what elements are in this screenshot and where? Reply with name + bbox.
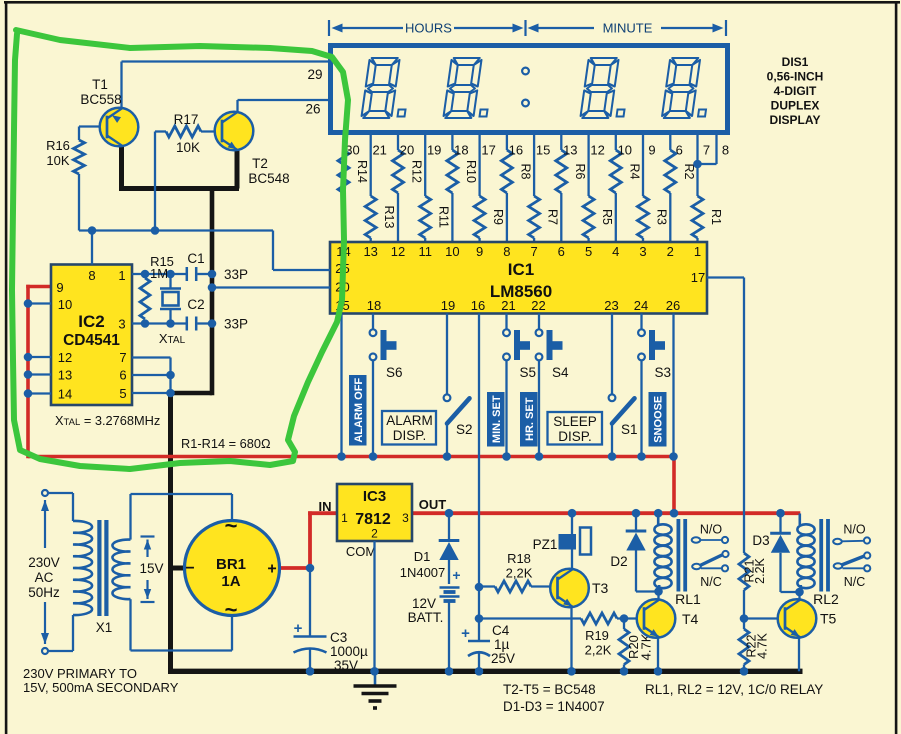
svg-text:20: 20 [400, 143, 414, 158]
wire IC1 pin17 to R21 [707, 278, 744, 554]
capacitor C2 33P [187, 297, 248, 332]
resistor R17 [155, 112, 223, 231]
annotation relay types [645, 682, 823, 697]
wire alarm line pin16 to bases [479, 617, 581, 619]
switch S2 [443, 314, 473, 461]
svg-text:14: 14 [58, 387, 72, 402]
svg-text:R7: R7 [546, 209, 560, 225]
transistor T5 [778, 599, 837, 638]
svg-text:+: + [461, 625, 470, 642]
svg-text:R13: R13 [382, 206, 396, 229]
svg-text:50Hz: 50Hz [28, 585, 60, 600]
svg-text:N/O: N/O [700, 523, 723, 537]
annotation 230V AC mains arrows [28, 500, 60, 644]
svg-text:C1: C1 [187, 251, 204, 266]
svg-text:T4: T4 [682, 611, 699, 627]
svg-text:S6: S6 [386, 365, 403, 380]
relay RL1 contacts [692, 523, 729, 590]
battery 12V [408, 560, 461, 676]
svg-text:BR1: BR1 [216, 556, 246, 573]
svg-text:−: − [185, 560, 194, 577]
svg-text:COM: COM [346, 544, 376, 559]
switch S6 [369, 314, 403, 461]
svg-text:T2: T2 [252, 156, 268, 171]
svg-text:D1: D1 [414, 549, 431, 564]
svg-text:SLEEP: SLEEP [553, 414, 597, 429]
wire display pin 8 to R1 column [693, 135, 729, 168]
green highlight loop [12, 30, 348, 469]
wire T3 emitter to ground [567, 607, 576, 676]
svg-text:10: 10 [618, 143, 632, 158]
svg-text:MIN. SET: MIN. SET [491, 395, 503, 443]
svg-text:S1: S1 [621, 422, 638, 437]
svg-text:9: 9 [56, 280, 63, 295]
svg-text:12V: 12V [412, 596, 436, 611]
svg-text:9: 9 [476, 244, 483, 259]
label ALARM DISP box [382, 411, 436, 445]
svg-text:C2: C2 [187, 297, 204, 312]
svg-text:R14: R14 [355, 160, 369, 183]
svg-text:6: 6 [676, 143, 683, 158]
svg-text:3: 3 [639, 244, 646, 259]
svg-text:12: 12 [590, 143, 604, 158]
wire V+ junction dot [670, 509, 679, 518]
svg-text:R8: R8 [518, 164, 532, 180]
svg-text:R16: R16 [46, 138, 70, 153]
resistor R19 2.2K [581, 613, 645, 658]
resistor R16 [46, 127, 106, 231]
svg-text:R1-R14 = 680Ω: R1-R14 = 680Ω [181, 436, 271, 451]
crystal XTAL [159, 274, 186, 346]
annotation 15V secondary arrows [139, 537, 163, 603]
capacitor C3 1000u [294, 564, 369, 676]
resistor R9 with display pin 17 [474, 135, 505, 243]
svg-text:15: 15 [536, 143, 550, 158]
svg-text:13: 13 [563, 143, 577, 158]
svg-text:IN: IN [319, 499, 332, 514]
svg-text:10: 10 [445, 244, 459, 259]
svg-text:7: 7 [119, 350, 126, 365]
svg-text:DUPLEX: DUPLEX [771, 99, 820, 113]
transformer X1 secondary winding [112, 494, 232, 651]
annotation transistor types [503, 682, 605, 714]
label X1 [96, 620, 113, 635]
svg-text:DISPLAY: DISPLAY [770, 113, 821, 127]
wire V+ net (red bus) [26, 285, 800, 570]
diode D2 [610, 509, 658, 592]
wire ground net (T1/T2 to IC2 pin5 to bus) [119, 146, 803, 674]
diode D3 [752, 509, 799, 592]
svg-text:5: 5 [119, 386, 126, 401]
wire IC3 pin2 to ground [370, 541, 379, 676]
wire IC2 pin8 to bias node [88, 226, 160, 264]
wire IC1 pin16 alarm output column [475, 314, 484, 676]
label HR. SET [520, 392, 538, 447]
svg-text:25V: 25V [491, 651, 515, 666]
svg-text:18: 18 [367, 298, 381, 313]
resistor R8 with display pin 16 [501, 135, 532, 243]
resistor R6 with display pin 13 [556, 135, 587, 243]
svg-text:17: 17 [481, 143, 495, 158]
wire IC2 pins 7,6,5 [132, 358, 175, 398]
wire IC1 pin26 column [669, 314, 678, 461]
svg-text:IC3: IC3 [363, 488, 386, 505]
svg-text:T3: T3 [592, 580, 609, 596]
svg-text:10: 10 [58, 297, 72, 312]
wire IC1 pin15 column [337, 314, 346, 461]
svg-text:BC558: BC558 [80, 92, 121, 107]
svg-text:26: 26 [666, 298, 680, 313]
svg-text:7: 7 [703, 143, 710, 158]
svg-text:1µ: 1µ [494, 637, 510, 652]
svg-text:230V PRIMARY TO: 230V PRIMARY TO [23, 666, 137, 681]
svg-text:R3: R3 [655, 209, 669, 225]
diode D1 1N4007 [400, 509, 460, 580]
svg-text:S2: S2 [456, 422, 473, 437]
IC1 right pin number 17 [691, 270, 705, 285]
svg-text:N/O: N/O [843, 523, 866, 537]
svg-text:~: ~ [225, 597, 238, 622]
svg-text:8: 8 [503, 244, 510, 259]
IC1 top pin numbers [336, 244, 701, 259]
svg-text:23: 23 [604, 298, 618, 313]
svg-text:PZ1: PZ1 [533, 537, 558, 552]
transformer X1 primary terminals [42, 490, 48, 654]
svg-text:R1: R1 [709, 209, 723, 225]
resistor R12 with display pin 20 [393, 135, 424, 243]
wire IC2 pin1 row [132, 270, 216, 279]
wire R21 junction to T5 base [744, 617, 786, 619]
label ALARM OFF [349, 375, 367, 446]
red feed to relays [0, 0, 1, 1]
svg-text:R10: R10 [464, 160, 478, 183]
svg-text:7812: 7812 [355, 511, 391, 528]
relay RL2 contacts [833, 523, 870, 590]
svg-text:DIS1: DIS1 [782, 55, 809, 69]
svg-text:15V: 15V [139, 561, 163, 576]
svg-text:~: ~ [225, 513, 238, 538]
svg-text:R9: R9 [491, 209, 505, 225]
svg-text:1: 1 [118, 268, 125, 283]
svg-text:35V: 35V [334, 658, 358, 673]
label SNOOSE [649, 392, 667, 447]
svg-text:19: 19 [427, 143, 441, 158]
svg-text:D1-D3 = 1N4007: D1-D3 = 1N4007 [503, 699, 605, 714]
transistor T3 [550, 569, 608, 608]
svg-text:6: 6 [119, 368, 126, 383]
svg-text:3: 3 [118, 317, 125, 332]
svg-text:9: 9 [648, 143, 655, 158]
svg-text:13: 13 [58, 368, 72, 383]
svg-text:AC: AC [35, 570, 54, 585]
svg-text:C4: C4 [492, 623, 510, 638]
svg-text:S4: S4 [552, 365, 569, 380]
svg-text:1: 1 [341, 511, 348, 525]
svg-text:IC2: IC2 [78, 312, 104, 331]
IC2 CD4541 body [51, 265, 132, 406]
svg-text:12: 12 [58, 350, 72, 365]
svg-text:2,2K: 2,2K [506, 566, 533, 581]
wire IC2 left pins to V+ rail [24, 299, 51, 398]
svg-text:DISP.: DISP. [393, 428, 427, 443]
resistor R11 with display pin 19 [420, 135, 451, 243]
svg-text:SNOOSE: SNOOSE [653, 396, 665, 443]
resistor R2 with display pin 6 [665, 135, 696, 243]
transformer X1 core [97, 520, 108, 616]
IC3 7812 regulator [319, 484, 447, 559]
svg-text:2,2K: 2,2K [585, 643, 612, 658]
svg-text:R4: R4 [627, 164, 641, 180]
ground symbol [354, 673, 397, 708]
svg-text:S5: S5 [520, 365, 537, 380]
wire display pin 29 from T1 [122, 62, 330, 109]
label 230V primary annotation [23, 666, 179, 695]
resistor R13 with display pin 21 [365, 135, 396, 243]
7-segment digit 4 [662, 58, 713, 118]
resistor R22 4.7K [739, 619, 770, 676]
resistor R14 with display pin 30 [338, 135, 369, 243]
svg-text:T2-T5 = BC548: T2-T5 = BC548 [503, 682, 596, 697]
svg-text:22: 22 [531, 298, 545, 313]
IC1 left pin numbers [335, 261, 349, 313]
svg-text:13: 13 [363, 244, 377, 259]
transistor T2 BC548 [215, 112, 290, 186]
svg-text:2: 2 [371, 527, 378, 541]
display DIS1 outline [331, 46, 728, 133]
svg-text:R19: R19 [585, 628, 609, 643]
7-segment digit 3 [580, 58, 631, 118]
colon [522, 68, 529, 107]
svg-text:RL1: RL1 [675, 591, 701, 607]
svg-text:BATT.: BATT. [408, 610, 444, 625]
svg-text:C3: C3 [330, 630, 347, 645]
capacitor C1 33P [187, 251, 248, 282]
wire IC1 pin25 to bias node [79, 231, 330, 271]
svg-text:RL1, RL2 = 12V, 1C/0 RELAY: RL1, RL2 = 12V, 1C/0 RELAY [645, 682, 823, 697]
svg-text:R17: R17 [174, 112, 199, 127]
svg-text:4.7K: 4.7K [756, 632, 770, 658]
resistor R4 with display pin 10 [610, 135, 641, 243]
resistor R1 with display pin 7 [692, 135, 723, 243]
label MIN. SET [487, 392, 505, 447]
svg-text:ALARM: ALARM [386, 413, 433, 428]
svg-text:S3: S3 [655, 365, 672, 380]
wire display pin 26 from T2 [238, 100, 330, 117]
wire T5 emitter to ground [798, 637, 800, 671]
IC1 bottom pin numbers [367, 298, 680, 313]
svg-text:R12: R12 [410, 160, 424, 183]
svg-text:R11: R11 [437, 206, 451, 228]
svg-text:24: 24 [634, 298, 648, 313]
svg-text:+: + [452, 567, 460, 583]
relay RL1 coil [654, 509, 701, 607]
svg-text:7: 7 [530, 244, 537, 259]
header HOURS/MINUTE dimension arrows [329, 20, 726, 36]
relay RL2 coil [795, 514, 839, 608]
resistor R10 with display pin 18 [447, 135, 478, 243]
label DIS1 display annotation [767, 55, 824, 127]
svg-text:IC1: IC1 [508, 260, 534, 279]
label XTAL frequency [55, 413, 160, 428]
svg-text:19: 19 [441, 298, 455, 313]
svg-text:D2: D2 [610, 554, 627, 569]
resistor R18 2.2K [479, 551, 559, 592]
svg-text:230V: 230V [28, 555, 60, 570]
resistor R7 with display pin 15 [529, 135, 560, 243]
7-segment digit 1 [361, 58, 412, 118]
svg-text:+: + [267, 561, 276, 578]
svg-text:12: 12 [391, 244, 405, 259]
svg-text:1M: 1M [150, 266, 168, 281]
svg-text:8: 8 [722, 143, 729, 158]
svg-text:T1: T1 [92, 77, 108, 92]
transistor T1 BC558 [80, 77, 138, 146]
svg-text:33P: 33P [224, 317, 248, 332]
svg-text:10K: 10K [46, 153, 69, 168]
svg-text:HOURS: HOURS [405, 21, 452, 36]
svg-text:29: 29 [307, 67, 322, 82]
transistor T4 [637, 599, 699, 638]
svg-text:DISP.: DISP. [558, 429, 592, 444]
svg-text:ALARM OFF: ALARM OFF [353, 378, 365, 443]
svg-text:8: 8 [88, 268, 95, 283]
svg-text:HR. SET: HR. SET [524, 397, 536, 441]
svg-text:R18: R18 [507, 551, 531, 566]
bridge rectifier BR1 [185, 494, 280, 651]
svg-text:16: 16 [471, 298, 485, 313]
svg-text:11: 11 [418, 244, 432, 259]
switch S1 [608, 314, 638, 461]
resistor R3 with display pin 9 [638, 135, 669, 243]
svg-text:1N4007: 1N4007 [400, 565, 446, 580]
buzzer PZ1 [533, 509, 591, 569]
svg-text:N/C: N/C [844, 575, 866, 589]
svg-text:2.2K: 2.2K [753, 557, 767, 583]
svg-text:+: + [294, 620, 303, 637]
switch S4 [535, 314, 569, 461]
svg-text:OUT: OUT [419, 497, 447, 512]
wire IC2 pin3 row [132, 319, 216, 328]
svg-text:MINUTE: MINUTE [603, 21, 653, 36]
svg-text:21: 21 [372, 143, 386, 158]
svg-text:17: 17 [691, 270, 705, 285]
resistor R20 4.7K [619, 614, 654, 675]
svg-text:1A: 1A [221, 573, 240, 590]
svg-text:BC548: BC548 [248, 171, 289, 186]
svg-text:0,56-INCH: 0,56-INCH [767, 70, 824, 84]
switch S3 [637, 314, 671, 461]
label SLEEP DISP box [548, 412, 603, 445]
IC2 pin numbers [56, 268, 126, 402]
svg-text:3: 3 [402, 511, 409, 525]
svg-text:4: 4 [612, 244, 619, 259]
transformer X1 primary winding [48, 493, 92, 651]
svg-text:CD4541: CD4541 [63, 332, 120, 349]
capacitor C4 1u [461, 623, 515, 666]
IC1 LM8560 body [330, 242, 707, 314]
svg-text:1000µ: 1000µ [330, 644, 368, 659]
svg-text:R5: R5 [600, 209, 614, 225]
svg-text:RL2: RL2 [813, 591, 839, 607]
svg-text:2: 2 [667, 244, 674, 259]
svg-text:33P: 33P [224, 267, 248, 282]
svg-text:4-DIGIT: 4-DIGIT [774, 84, 817, 98]
svg-text:6: 6 [558, 244, 565, 259]
svg-text:10K: 10K [176, 140, 200, 155]
switch S5 [502, 314, 536, 461]
label R1-R14 value [181, 436, 271, 451]
resistor R21 2.2K [739, 553, 767, 623]
svg-text:X1: X1 [96, 620, 113, 635]
wire T4 emitter to ground [654, 637, 663, 676]
svg-text:5: 5 [585, 244, 592, 259]
svg-text:N/C: N/C [700, 575, 722, 589]
wire IC1 pin20 to ground line [208, 283, 330, 292]
svg-text:16: 16 [509, 143, 523, 158]
resistor R15 1M [140, 254, 174, 319]
svg-text:26: 26 [305, 102, 320, 117]
7-segment digit 2 [443, 58, 494, 118]
resistor R5 with display pin 12 [583, 135, 614, 243]
svg-text:1: 1 [694, 244, 701, 259]
svg-text:D3: D3 [752, 533, 769, 548]
svg-text:15V, 500mA SECONDARY: 15V, 500mA SECONDARY [23, 680, 179, 695]
svg-text:T5: T5 [820, 611, 837, 627]
svg-text:21: 21 [501, 298, 515, 313]
svg-text:18: 18 [454, 143, 468, 158]
svg-text:R6: R6 [573, 164, 587, 180]
